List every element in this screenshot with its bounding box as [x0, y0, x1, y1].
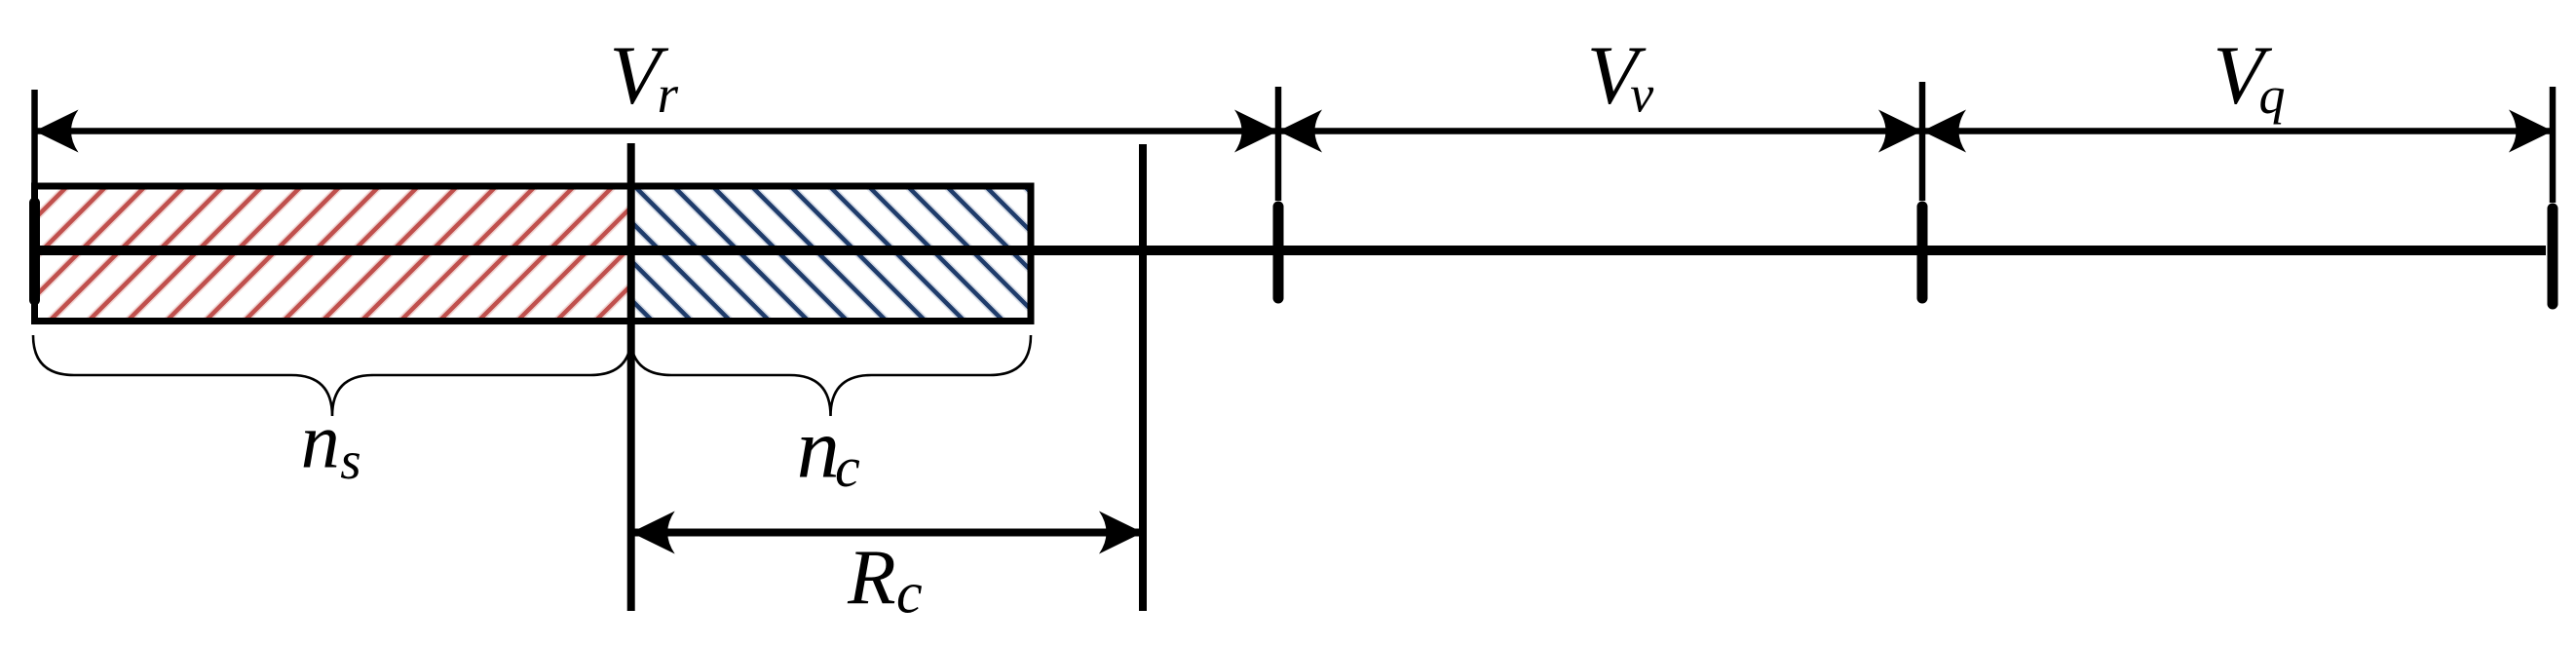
brace under red segment (n_s)	[33, 335, 631, 416]
svg-text:c: c	[896, 560, 923, 625]
tick 4 thick bar	[2548, 209, 2558, 304]
tick 2 thick bar	[1273, 207, 1284, 298]
tick 3 extension line (V_v / V_q boundary)	[1919, 82, 1926, 201]
hatched bar red segment (n_s region)	[35, 186, 631, 322]
svg-text:s: s	[340, 431, 360, 490]
tick 1 extension line (left end of V_r)	[31, 90, 38, 306]
V_r left arrowhead	[35, 110, 79, 153]
V_q right arrowhead	[2509, 110, 2553, 153]
svg-text:n: n	[301, 399, 340, 485]
V_v left arrowhead	[1278, 110, 1322, 153]
tick 4 extension line (right end of V_q)	[2550, 87, 2557, 203]
vertical line at right end of R_c	[1139, 144, 1147, 611]
dimension line V_r	[37, 128, 1276, 134]
tick 3 thick bar	[1917, 207, 1928, 298]
svg-text:c: c	[835, 436, 860, 499]
svg-text:r: r	[658, 64, 679, 124]
svg-text:n: n	[797, 402, 840, 497]
main axis line	[32, 246, 2546, 255]
V_v right arrowhead	[1878, 110, 1922, 153]
dimension line R_c	[633, 529, 1141, 537]
V_q left arrowhead	[1922, 110, 1966, 153]
svg-text:q: q	[2259, 66, 2286, 125]
vertical line at red/blue boundary	[627, 143, 635, 611]
svg-text:R: R	[847, 533, 895, 621]
R_c right arrowhead	[1099, 512, 1143, 554]
dimension line V_q	[1924, 128, 2551, 134]
bar outline	[35, 186, 1032, 322]
brace under blue segment (n_c)	[630, 335, 1031, 416]
R_c left arrowhead	[631, 512, 675, 554]
tick 2 extension line (V_r / V_v boundary)	[1275, 87, 1282, 201]
V_r right arrowhead	[1234, 110, 1278, 153]
tick 1 thick bar	[29, 203, 40, 300]
dimension line V_v	[1280, 128, 1920, 134]
hatched bar blue segment (n_c region)	[631, 186, 1031, 322]
svg-text:v: v	[1630, 65, 1653, 124]
